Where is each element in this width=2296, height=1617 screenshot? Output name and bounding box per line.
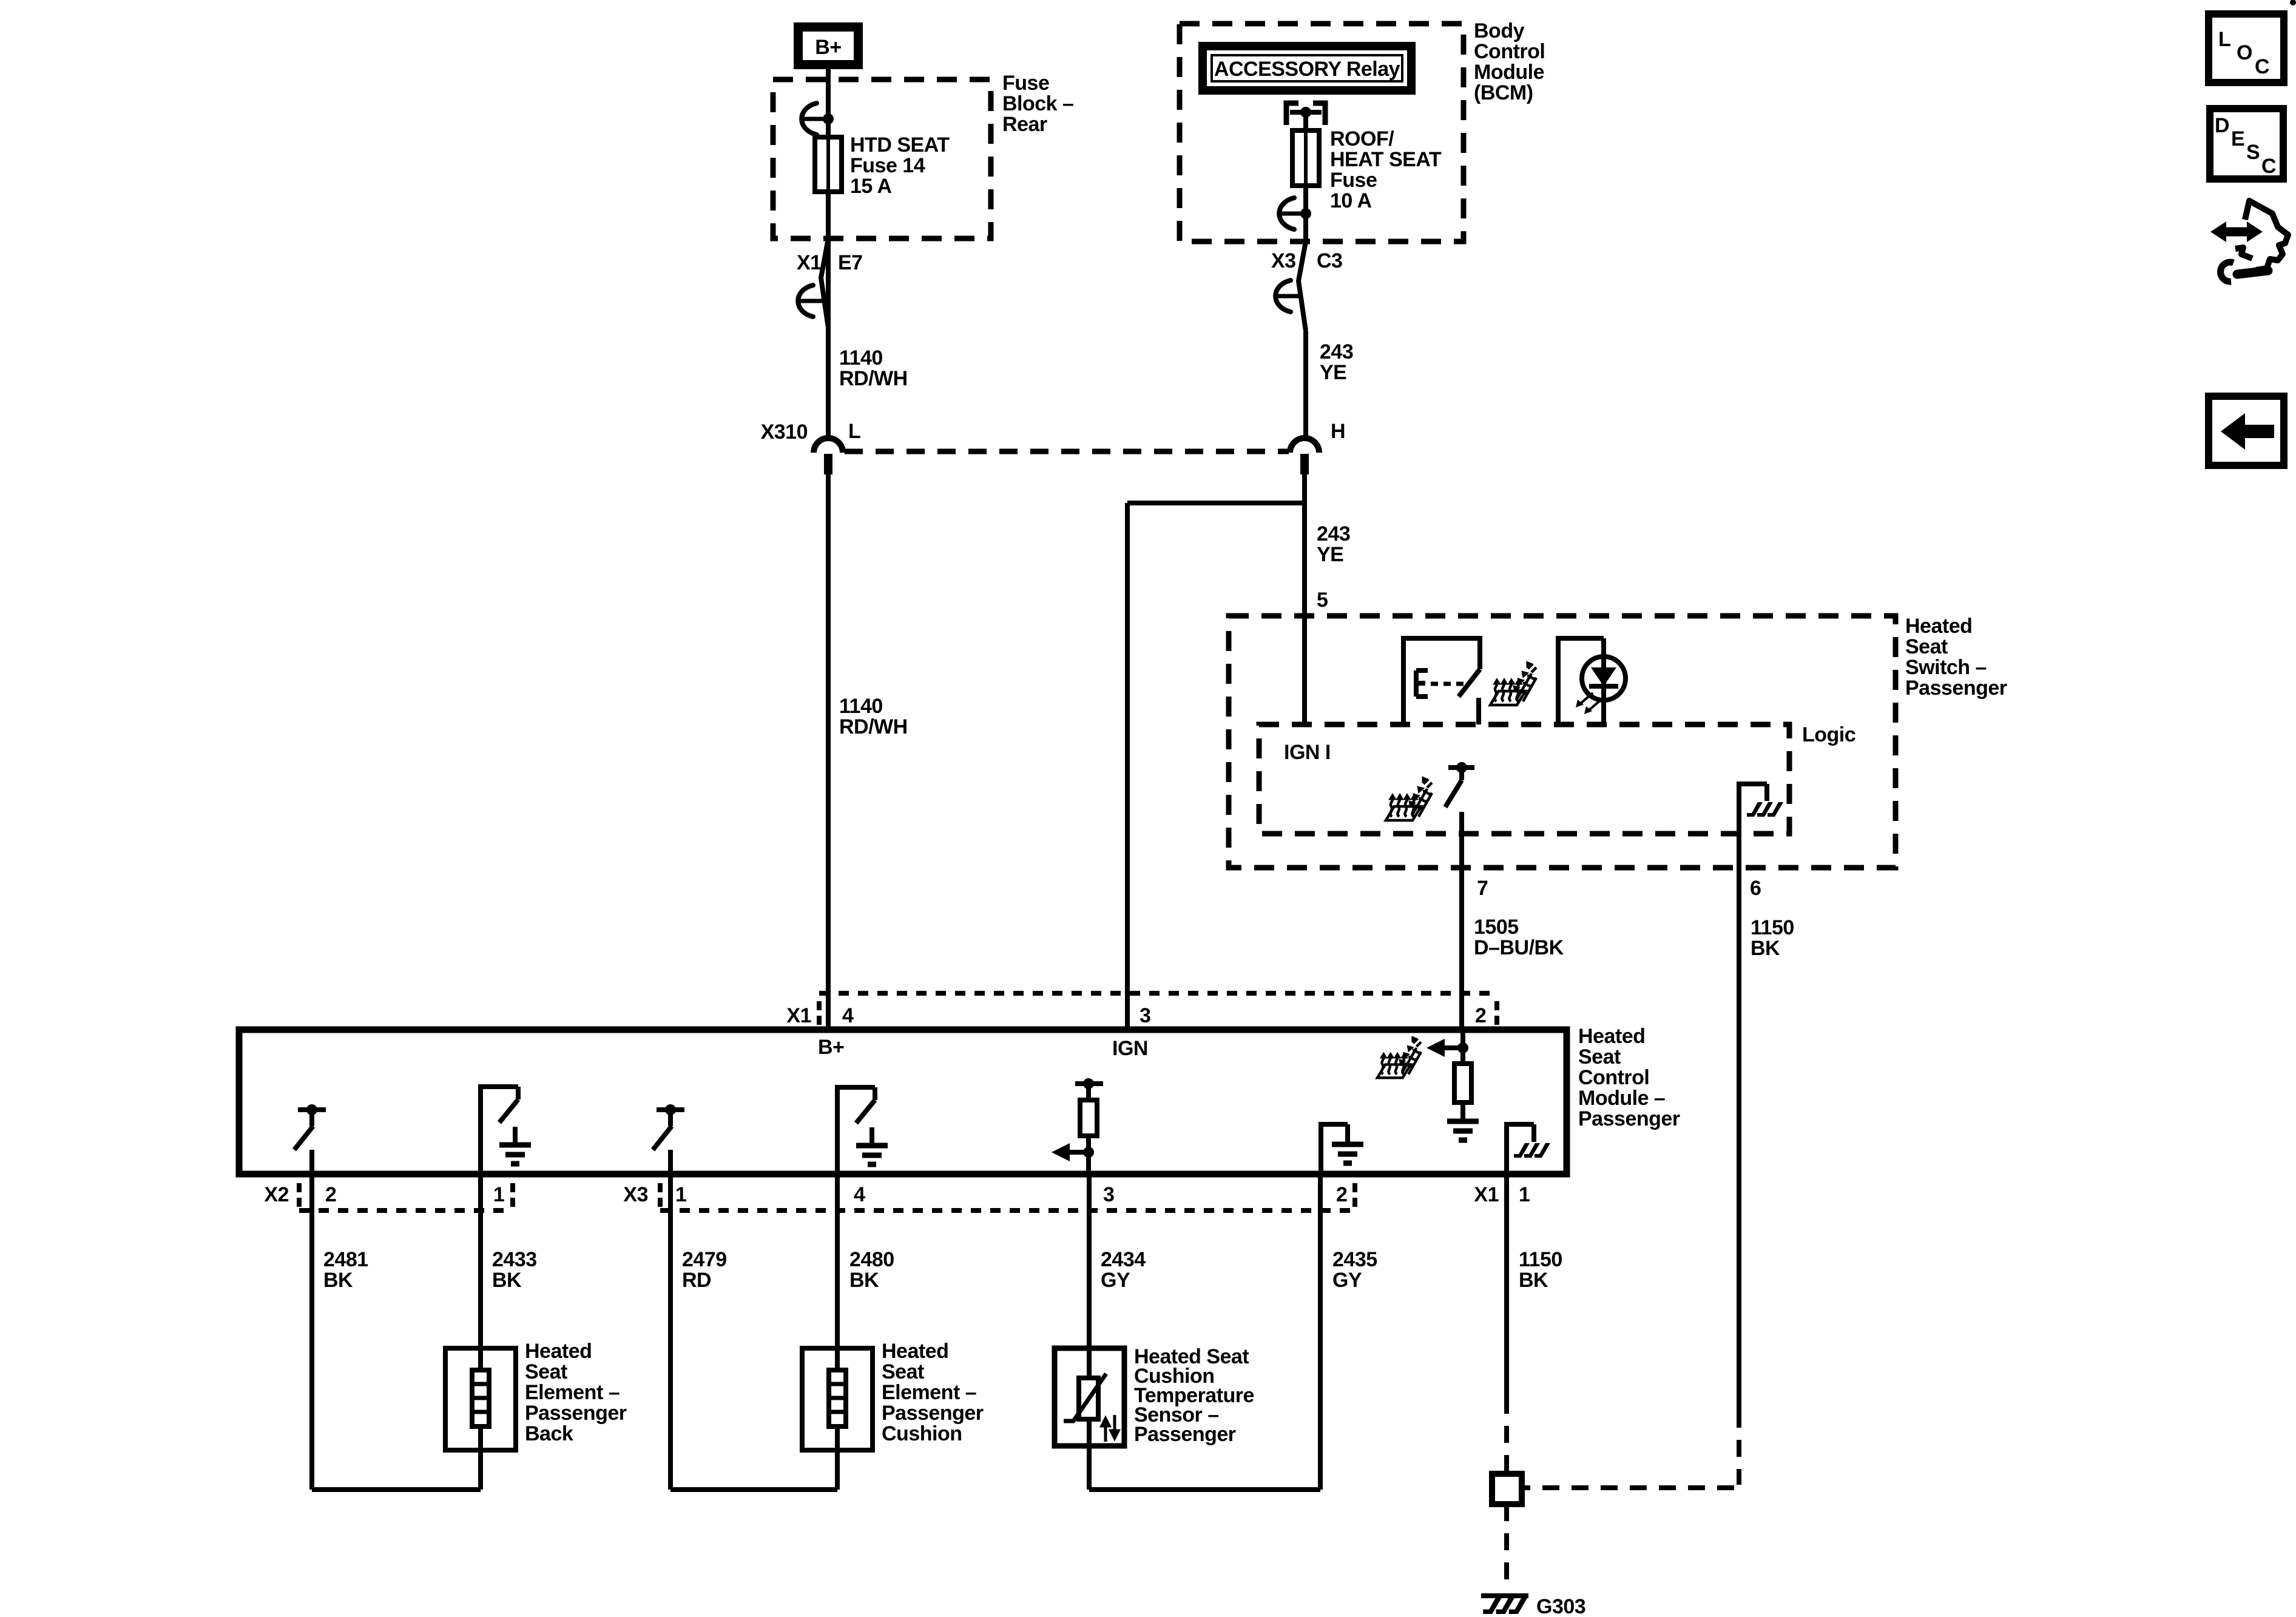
svg-text:E: E — [2231, 127, 2244, 150]
svg-text:1150: 1150 — [1519, 1248, 1562, 1271]
svg-text:Heated: Heated — [525, 1340, 592, 1363]
svg-text:IGN I: IGN I — [1284, 741, 1331, 764]
svg-text:Fuse: Fuse — [1002, 72, 1049, 95]
svg-text:5: 5 — [1317, 589, 1328, 612]
svg-text:YE: YE — [1317, 543, 1343, 566]
svg-text:1505: 1505 — [1474, 916, 1519, 939]
svg-text:2: 2 — [1336, 1183, 1347, 1206]
svg-text:HTD SEAT: HTD SEAT — [850, 133, 950, 157]
svg-text:B+: B+ — [815, 36, 841, 59]
svg-text:4: 4 — [854, 1183, 865, 1206]
svg-text:X310: X310 — [761, 420, 808, 444]
svg-text:Heated: Heated — [1578, 1025, 1645, 1048]
svg-text:Passenger: Passenger — [1578, 1107, 1680, 1130]
svg-text:D–BU/BK: D–BU/BK — [1474, 936, 1564, 959]
svg-text:3: 3 — [1103, 1183, 1114, 1206]
svg-text:C: C — [2261, 155, 2276, 178]
svg-text:2479: 2479 — [682, 1248, 727, 1271]
svg-text:Element –: Element – — [525, 1381, 620, 1404]
svg-text:X1: X1 — [786, 1004, 811, 1027]
svg-text:HEAT SEAT: HEAT SEAT — [1330, 148, 1442, 171]
svg-text:Control: Control — [1578, 1066, 1649, 1089]
svg-text:O: O — [2237, 41, 2252, 64]
svg-text:X2: X2 — [264, 1183, 289, 1206]
svg-text:BK: BK — [1751, 937, 1780, 960]
svg-text:GY: GY — [1332, 1269, 1362, 1292]
svg-text:Seat: Seat — [525, 1360, 567, 1383]
svg-text:Control: Control — [1474, 40, 1545, 63]
svg-text:X3: X3 — [1271, 249, 1296, 272]
svg-text:X1: X1 — [797, 251, 822, 274]
svg-text:YE: YE — [1320, 361, 1346, 384]
svg-text:S: S — [2246, 141, 2260, 164]
svg-text:C: C — [2255, 55, 2269, 78]
svg-text:Switch –: Switch – — [1905, 656, 1987, 679]
svg-text:C3: C3 — [1317, 249, 1342, 272]
svg-text:1: 1 — [675, 1183, 686, 1206]
svg-text:Cushion: Cushion — [882, 1422, 962, 1445]
svg-text:RD: RD — [682, 1269, 711, 1292]
svg-text:BK: BK — [492, 1269, 522, 1292]
svg-text:Fuse 14: Fuse 14 — [850, 154, 925, 177]
svg-text:X1: X1 — [1474, 1183, 1499, 1206]
svg-text:Block –: Block – — [1002, 92, 1073, 115]
svg-text:2: 2 — [325, 1183, 336, 1206]
svg-text:L: L — [848, 420, 860, 443]
svg-text:X3: X3 — [623, 1183, 648, 1206]
svg-text:RD/WH: RD/WH — [839, 367, 908, 390]
svg-text:Passenger: Passenger — [525, 1402, 627, 1425]
svg-text:6: 6 — [1750, 877, 1761, 900]
svg-text:BK: BK — [849, 1269, 879, 1292]
svg-text:243: 243 — [1320, 340, 1353, 363]
svg-text:Heated: Heated — [1905, 615, 1972, 638]
svg-text:RD/WH: RD/WH — [839, 715, 908, 738]
svg-text:1140: 1140 — [839, 346, 883, 370]
svg-text:(BCM): (BCM) — [1474, 81, 1533, 104]
svg-text:4: 4 — [842, 1004, 854, 1027]
svg-text:Back: Back — [525, 1422, 573, 1445]
svg-text:D: D — [2215, 114, 2229, 137]
svg-text:1: 1 — [493, 1183, 504, 1206]
svg-text:Module: Module — [1474, 61, 1544, 84]
svg-text:B+: B+ — [818, 1036, 844, 1059]
svg-text:Rear: Rear — [1002, 113, 1047, 136]
svg-text:IGN: IGN — [1112, 1037, 1148, 1060]
svg-text:BK: BK — [1519, 1269, 1548, 1292]
svg-text:G303: G303 — [1536, 1595, 1585, 1617]
svg-text:2: 2 — [1475, 1004, 1486, 1027]
svg-text:Seat: Seat — [1905, 635, 1948, 658]
svg-text:H: H — [1331, 420, 1345, 443]
svg-text:2434: 2434 — [1101, 1248, 1146, 1271]
svg-text:Passenger: Passenger — [1905, 677, 2007, 700]
svg-text:7: 7 — [1477, 877, 1488, 900]
svg-text:3: 3 — [1140, 1004, 1150, 1027]
svg-text:Module –: Module – — [1578, 1087, 1665, 1110]
svg-text:1150: 1150 — [1751, 916, 1794, 939]
svg-text:2433: 2433 — [492, 1248, 537, 1271]
svg-text:L: L — [2218, 28, 2230, 51]
svg-text:ACCESSORY Relay: ACCESSORY Relay — [1214, 58, 1400, 81]
svg-text:E7: E7 — [838, 251, 863, 274]
svg-text:Heated: Heated — [882, 1340, 948, 1363]
svg-text:243: 243 — [1317, 522, 1350, 545]
svg-text:GY: GY — [1101, 1269, 1130, 1292]
svg-text:Logic: Logic — [1802, 723, 1855, 746]
svg-text:10 A: 10 A — [1330, 189, 1372, 212]
svg-text:Body: Body — [1474, 19, 1525, 42]
svg-text:Seat: Seat — [882, 1360, 924, 1383]
svg-text:ROOF/: ROOF/ — [1330, 127, 1394, 150]
svg-text:Seat: Seat — [1578, 1045, 1621, 1068]
svg-text:Passenger: Passenger — [1134, 1423, 1236, 1446]
svg-text:1: 1 — [1519, 1183, 1530, 1206]
svg-text:Passenger: Passenger — [882, 1402, 984, 1425]
svg-text:2435: 2435 — [1332, 1248, 1377, 1271]
svg-text:Element –: Element – — [882, 1381, 976, 1404]
svg-text:2480: 2480 — [849, 1248, 894, 1271]
svg-text:BK: BK — [323, 1269, 353, 1292]
svg-text:2481: 2481 — [323, 1248, 368, 1271]
svg-text:15 A: 15 A — [850, 175, 892, 198]
svg-text:Fuse: Fuse — [1330, 169, 1377, 192]
svg-text:1140: 1140 — [839, 695, 883, 718]
